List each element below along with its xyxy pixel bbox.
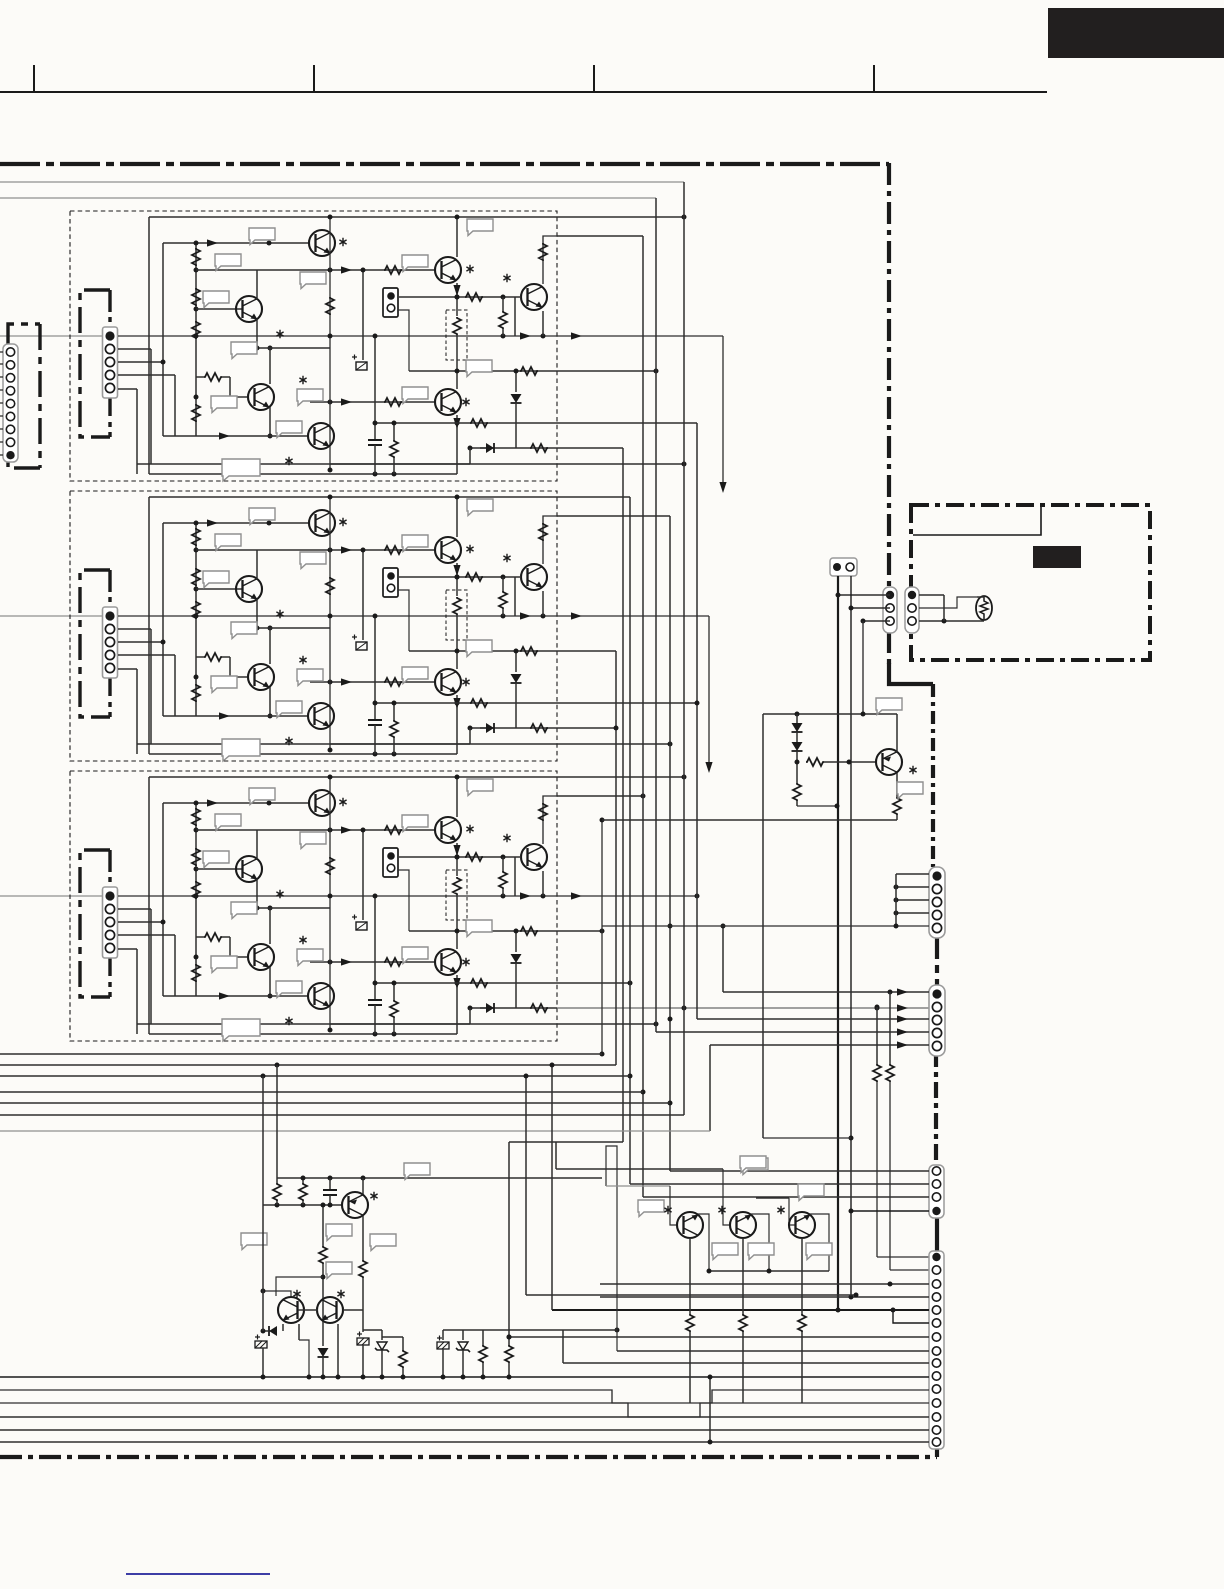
junction drv top b — [361, 1176, 366, 1181]
wire ch1 top rail ext — [557, 216, 684, 218]
bus vertical v6 — [669, 516, 671, 1171]
junction v1b — [600, 818, 605, 823]
wire cnD pin11 — [0, 1390, 929, 1403]
wire Q31 emitter up — [362, 1178, 364, 1194]
junction v4 — [641, 1090, 646, 1095]
transistor Q21 — [876, 749, 902, 775]
junction v11 — [721, 924, 726, 929]
junction lamp pin3 — [942, 619, 947, 624]
wire supply pin feeds — [851, 607, 890, 609]
bus line 6 — [0, 1114, 684, 1116]
wire R22 link — [797, 805, 837, 807]
wire cluster drop — [762, 820, 764, 1138]
wire bus10 drop — [709, 1377, 711, 1442]
wire cnC pin4 — [851, 1210, 929, 1212]
junction ch3 aux out a — [682, 1006, 687, 1011]
wire trio base C — [789, 1198, 796, 1225]
arrow ch3 output — [571, 892, 582, 899]
junction v10 — [695, 701, 700, 706]
wire cnA pin2 — [896, 886, 929, 888]
wire trio feed B — [606, 1185, 670, 1187]
wire cnA pin3 — [896, 899, 929, 901]
junction surge a — [441, 1375, 446, 1380]
label drv a — [326, 1224, 352, 1241]
wire v263 — [262, 1076, 264, 1331]
asterisk Q42 — [718, 1206, 725, 1214]
wire step link C — [562, 1330, 564, 1363]
asterisk Q31 — [370, 1192, 377, 1200]
channel 1 amplifier block — [70, 211, 557, 481]
wire ch1 link out — [557, 463, 684, 465]
wire trio collector rail — [709, 1270, 829, 1272]
resistor R33 — [319, 1246, 327, 1264]
wire trio feed A — [556, 1168, 723, 1170]
junction bus10 g — [401, 1375, 406, 1380]
wire ch1 upper out ext — [557, 370, 656, 372]
wire cluster bottom — [602, 819, 897, 821]
junction surge d — [507, 1375, 512, 1380]
junction trio rail b — [767, 1269, 772, 1274]
transistor Q32 — [278, 1297, 304, 1323]
wire ch2 aux bias — [557, 702, 697, 704]
wire ch1 box ext — [557, 235, 643, 237]
resistor R37 — [508, 1330, 510, 1345]
label trio em B — [748, 1243, 774, 1260]
board border conn3-conn4 link — [935, 1218, 939, 1251]
header tick 4 — [873, 65, 875, 92]
junction bus10 a — [261, 1375, 266, 1380]
diode D32 — [318, 1348, 329, 1357]
zener D33 — [381, 1330, 383, 1340]
capacitor C33 electrolytic — [357, 1332, 369, 1346]
capacitor C34 electrolytic — [442, 1330, 444, 1340]
junction R21 link — [847, 760, 852, 765]
bus vertical v10 — [696, 423, 698, 1019]
label trio top — [740, 1156, 766, 1173]
wire lamp pin1 drop — [943, 595, 945, 621]
connector CN right B 5-pin — [929, 985, 945, 1056]
board border link conn1-conn2 — [935, 933, 939, 985]
lamp board dash-dot box — [911, 505, 1150, 660]
label trio right — [798, 1184, 824, 1201]
wire bus feed B — [0, 197, 656, 199]
label drv c — [241, 1233, 267, 1250]
wire ch2 output — [557, 615, 709, 617]
wire cnB pin5 — [710, 1044, 929, 1046]
resistor R23 — [893, 797, 901, 815]
wire ch2 output drop — [708, 616, 710, 770]
wire cnD pin12 — [0, 1403, 929, 1417]
wire Q32 collector — [298, 1324, 300, 1340]
zener D34 — [462, 1330, 464, 1340]
resistor R31 — [276, 1065, 278, 1183]
asterisk Q41 — [664, 1206, 671, 1214]
bus vertical v2 — [615, 651, 617, 1065]
wire cluster left drop — [762, 714, 764, 820]
wire cnA link — [895, 874, 897, 926]
wire ch3 aux bias — [557, 982, 630, 984]
wire cnD pin7 — [509, 1336, 929, 1338]
footer reference line — [126, 1573, 270, 1575]
resistor R34 — [359, 1260, 367, 1278]
wire trio coll C — [810, 1214, 829, 1271]
asterisk Q43 — [777, 1206, 784, 1214]
wire ch1 input rail — [0, 335, 104, 337]
channel 3 amplifier block — [70, 771, 557, 1041]
resistor R32 — [302, 1178, 304, 1183]
asterisk Q33 — [337, 1290, 344, 1298]
junction surge c — [481, 1375, 486, 1380]
junction cluster b — [861, 712, 866, 717]
wire ch3 box ext — [557, 795, 643, 797]
resistor R41 — [689, 1238, 691, 1314]
bus vertical v11 — [722, 926, 724, 992]
wire Q32 base stub — [298, 1309, 318, 1311]
wire ch3 aux out — [557, 1007, 929, 1009]
wire drv mid drop — [322, 1205, 324, 1246]
transistor Q33 — [317, 1297, 343, 1323]
label trio em C — [806, 1243, 832, 1260]
wire cnB pin1 — [723, 991, 929, 993]
asterisk Q32 — [293, 1290, 300, 1298]
wire step link A — [525, 1076, 527, 1295]
wire ch3 upper out ext — [557, 930, 602, 932]
label Q21 bottom — [897, 782, 923, 799]
junction ch3 aux out b — [875, 1006, 880, 1011]
wire cnB pin4 — [656, 1031, 929, 1033]
connector CN right A 5-pin — [929, 867, 945, 938]
wire cnA pin4 — [896, 912, 929, 914]
wire step link2 — [606, 1146, 617, 1351]
junction surge b — [461, 1375, 466, 1380]
transistor Q43 — [789, 1212, 815, 1238]
wire R21 link — [824, 761, 876, 763]
bus vertical v1 — [601, 820, 603, 1054]
junction surge e — [507, 1335, 512, 1340]
lamp LA1 — [976, 596, 992, 620]
wire drv link 1330 — [363, 1329, 382, 1331]
wire trio coll A — [698, 1214, 709, 1271]
wire cnC pin2 — [630, 1183, 929, 1185]
resistor R24 — [889, 992, 891, 1064]
transistor Q42 — [730, 1212, 756, 1238]
lamp board label box — [913, 507, 1041, 535]
junction ch3 box ext — [641, 794, 646, 799]
junction R33 — [321, 1275, 326, 1280]
bus line 2 — [0, 1064, 616, 1066]
wire Q33 emitter — [337, 1324, 339, 1377]
wire drv link 1337 — [382, 1336, 403, 1338]
connector CN right D 15-pin — [929, 1251, 944, 1449]
resistor R21 — [806, 758, 824, 766]
wire lamp loop — [919, 597, 977, 608]
junction diode tail — [795, 760, 800, 765]
junction ch1 top rail — [682, 215, 687, 220]
wire step link3 — [509, 1329, 617, 1331]
label trio em A — [712, 1243, 738, 1260]
resistor R22 — [793, 783, 801, 801]
bus vertical v9 — [622, 448, 624, 1142]
wire surge feed — [508, 1142, 510, 1330]
left connector pin stubs — [0, 351, 3, 353]
wire ch2 aux out — [557, 727, 616, 729]
wire ch2 input rail — [0, 615, 104, 617]
wire cnD pin4 — [600, 1296, 929, 1298]
wire trio coll B — [751, 1214, 769, 1271]
bus line 3 — [0, 1075, 630, 1077]
page number block — [1048, 8, 1224, 58]
resistor R35 — [402, 1337, 404, 1350]
wire cnA pin1 — [896, 873, 929, 875]
wire trio feed C — [756, 1197, 789, 1199]
wire tap drop 3 — [862, 621, 864, 714]
wire cnC pin1 — [670, 1170, 929, 1172]
wire ch2 top rail ext — [557, 496, 630, 498]
label trio left — [638, 1200, 664, 1217]
junction bus10 e — [361, 1375, 366, 1380]
bus vertical v5 — [655, 198, 657, 1032]
junction supply drop 2 — [849, 1136, 854, 1141]
wire ch1 output drop — [722, 336, 724, 490]
wire cnD pin14 — [0, 1429, 929, 1431]
junction R22 link — [835, 804, 840, 809]
wire step link B — [551, 1065, 553, 1310]
junction ch3 aux bias — [628, 981, 633, 986]
arrow ch1 output — [571, 332, 582, 339]
bus vertical v3 — [629, 497, 631, 1184]
connector CN supply 2-pin — [830, 558, 857, 576]
wire ch1 output — [557, 335, 723, 337]
junction drv base b — [301, 1203, 306, 1208]
label drv b — [326, 1262, 352, 1279]
wire R32 tail — [302, 1201, 304, 1205]
wire cnB pin2 arrow — [897, 1004, 908, 1011]
junction cluster a — [795, 712, 800, 717]
wire trio base B — [723, 1169, 730, 1225]
bus line 7 — [0, 1130, 710, 1132]
junction cnA pin5 — [894, 924, 899, 929]
header tick 2 — [313, 65, 315, 92]
wire cnC pin3 — [643, 1196, 929, 1198]
wire surge corner — [509, 1141, 623, 1143]
wire drv left link — [263, 1291, 291, 1296]
wire cnD pin5 thick — [552, 1309, 929, 1311]
board border top dash-dot — [0, 162, 889, 166]
wire ch3 input rail — [0, 895, 104, 897]
bus line 5 — [0, 1102, 670, 1104]
junction v1 — [600, 1052, 605, 1057]
junction bus10 d — [336, 1375, 341, 1380]
wire cnD pin15 — [0, 1441, 929, 1443]
header tick 3 — [593, 65, 595, 92]
bus line 1 — [0, 1053, 602, 1055]
capacitor C32 electrolytic — [255, 1335, 267, 1349]
wire lamp pin1 — [919, 594, 944, 596]
label drv top — [404, 1163, 430, 1180]
wire ch1 bias ext — [557, 422, 697, 424]
board border right dash-dot — [887, 163, 891, 666]
junction surge link — [507, 1335, 512, 1340]
junction bus3 — [261, 1074, 266, 1079]
wire lamp pin3 — [919, 620, 977, 622]
transistor Q31 — [342, 1192, 368, 1218]
connector CN left 9-pin — [3, 344, 18, 462]
wire surge top — [443, 1329, 509, 1331]
bus line 4 — [0, 1091, 643, 1093]
bus vertical v4 — [642, 236, 644, 1197]
junction v6c — [668, 1101, 673, 1106]
capacitor C31 — [329, 1178, 331, 1190]
board border conn2-conn3 dash-dot — [934, 1051, 938, 1165]
wire lamp top lead — [977, 596, 984, 598]
wire ch2 box ext — [557, 515, 670, 517]
wire cnA pin5 long — [602, 925, 929, 927]
wire Q21 collector — [896, 773, 898, 797]
lamp board name block — [1033, 546, 1081, 568]
wire supply drop 2 — [850, 576, 852, 1297]
header tick 1 — [33, 65, 35, 92]
wire cluster top — [763, 713, 897, 715]
junction trio rail a — [707, 1269, 712, 1274]
label Q21 top — [876, 698, 902, 715]
label cnC — [742, 1158, 768, 1175]
wire ch2 upper out ext — [557, 650, 616, 652]
wire ch2 link out — [557, 743, 670, 745]
wire cnD pin13 — [0, 1416, 929, 1418]
resistor R42 — [742, 1238, 744, 1314]
resistor R43 — [801, 1238, 803, 1314]
junction v3 — [628, 1074, 633, 1079]
connector CN lamp left 3-pin — [883, 587, 897, 633]
junction bus10 c — [321, 1375, 326, 1380]
junction bus10 b — [307, 1375, 312, 1380]
board border jog — [889, 663, 933, 684]
arrow ch1 drop — [719, 482, 726, 493]
wire diode tail — [796, 751, 798, 783]
junction drv base c — [328, 1203, 333, 1208]
junction drv base a — [275, 1203, 280, 1208]
wire ch3 output — [557, 895, 697, 897]
label drv d — [370, 1234, 396, 1251]
diode D11 — [792, 723, 803, 732]
junction v6 — [668, 1017, 673, 1022]
left connector frame dash-dot — [8, 324, 40, 468]
wire cnB pin3 — [697, 1018, 929, 1020]
junction bus10 f — [380, 1375, 385, 1380]
junction cnA pin5 mid — [668, 924, 673, 929]
transistor Q41 — [677, 1212, 703, 1238]
wire cnD pin8 — [617, 1350, 929, 1352]
wire Q33 base stub — [343, 1309, 363, 1311]
diode D31 — [282, 1324, 284, 1331]
diode D12 — [792, 742, 803, 751]
wire cnD pin3 — [600, 1283, 929, 1285]
board border bottom dash-dot — [0, 1455, 937, 1459]
resistor R36 — [482, 1330, 484, 1345]
wire Q31 collector — [362, 1216, 364, 1260]
wire drv base — [263, 1204, 342, 1206]
bus vertical v8 — [709, 1045, 711, 1131]
page header rule — [0, 91, 1047, 93]
wire lamp bottom lead — [977, 620, 984, 622]
junction bus2 — [275, 1063, 280, 1068]
board border right lower dash-dot — [931, 684, 935, 867]
wire cnD pin6 — [893, 1310, 929, 1323]
wire trio base A — [670, 1186, 677, 1225]
junction drv top a — [328, 1176, 333, 1181]
connector CN lamp right 3-pin — [905, 587, 919, 633]
bus vertical v7 — [683, 182, 685, 1115]
wire Q21 emitter up — [896, 714, 898, 752]
wire ch3 top rail ext — [557, 776, 684, 778]
asterisk Q21 — [909, 766, 916, 774]
connector CN right C 4-pin — [929, 1165, 944, 1218]
wire drv top — [277, 1177, 602, 1179]
wire link drop — [763, 1137, 851, 1139]
arrow ch2 output — [571, 612, 582, 619]
wire cnD pin9 — [563, 1362, 929, 1364]
board border bottom right link — [935, 1448, 939, 1457]
wire ch3 link out — [557, 1023, 656, 1025]
wire drv base2 — [276, 1277, 323, 1296]
channel 2 amplifier block — [70, 491, 557, 761]
arrow ch2 drop — [705, 762, 712, 773]
resistor R25 — [876, 1007, 878, 1064]
wire ch1 aux out — [557, 447, 623, 449]
wire bus feed A — [0, 181, 684, 183]
junction v2b — [614, 726, 619, 731]
wire cnD pin10 — [0, 1376, 929, 1378]
wire R31 tail — [276, 1201, 278, 1205]
wire supply drop 1 thick — [837, 576, 839, 1310]
